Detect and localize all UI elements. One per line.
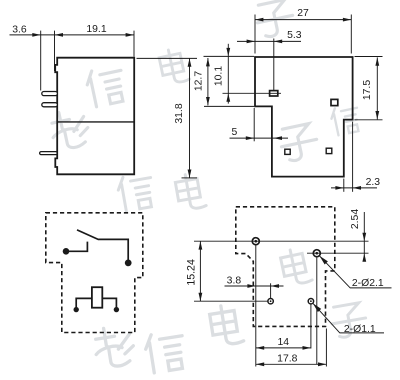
arrow of 3.6 pointing right — [32, 33, 40, 37]
svg-text:10.1: 10.1 — [214, 66, 225, 86]
svg-text:2-Ø2.1: 2-Ø2.1 — [352, 278, 384, 289]
dim 27 dimension line — [255, 19, 351, 21]
leader arrowhead at hole H2 — [318, 254, 328, 264]
svg-text:17.5: 17.5 — [362, 80, 373, 100]
dim 27 right extension — [350, 15, 352, 54]
arrow of 19.1 right — [126, 33, 134, 37]
dim 19.1 dimension line — [55, 34, 134, 36]
pin pad A4 — [326, 148, 332, 153]
dim 5 left extension line — [253, 108, 255, 141]
arrow 27 left — [255, 18, 263, 22]
hole H4 column extension line — [310, 304, 312, 349]
leader line to hole H2 (2-Ø2.1) — [319, 256, 391, 288]
dashed case outline — [46, 213, 143, 333]
arrow 12.7 down — [206, 97, 210, 105]
dim 19.1 right extension line — [133, 31, 135, 57]
leader arrowhead at hole H4 — [311, 302, 321, 312]
dim 3.6 extension line at pin tip — [40, 31, 42, 91]
dim 15.24 dimension line — [199, 241, 201, 301]
svg-text:27: 27 — [297, 8, 309, 19]
hole H1 column extension line — [255, 245, 257, 367]
dim 2.3 dimension line — [331, 187, 377, 189]
svg-text:5: 5 — [232, 127, 238, 138]
arrow 15.24 up — [199, 241, 203, 249]
contact movable blade — [77, 230, 99, 240]
terminal node: contact common — [63, 248, 70, 255]
svg-text:2.54: 2.54 — [350, 209, 361, 229]
arrow 5 left (outside, points right) — [246, 136, 254, 140]
svg-text:3.8: 3.8 — [227, 276, 242, 287]
arrow 10.1 top (outside, points down) — [226, 48, 230, 56]
arrow 3.8 right (outside, points left) — [271, 284, 279, 288]
relay body outline (side view) — [55, 58, 134, 175]
svg-text:19.1: 19.1 — [86, 24, 106, 35]
hole H1 center dot — [255, 240, 258, 243]
pin A1 row extension line — [223, 92, 282, 94]
dim 2.3 right extension — [352, 122, 354, 192]
svg-text:31.8: 31.8 — [174, 103, 185, 123]
coil right wire — [102, 298, 116, 307]
hole H2 column extension line — [316, 257, 318, 365]
dim 14 dimension line — [256, 347, 311, 349]
hole H3 center dot — [270, 300, 272, 302]
dim 17.5 bottom extension — [355, 119, 383, 121]
dim 2.54 dimension line — [363, 212, 365, 259]
dim 31.8 dimension line — [189, 58, 191, 177]
arrow 5 right (outside, points left) — [274, 136, 282, 140]
arrow 2.54 top (outside, points down) — [362, 233, 366, 241]
arrow 14 right — [303, 346, 311, 350]
leader line to hole H4 (2-Ø1.1) — [313, 303, 384, 333]
svg-text:17.8: 17.8 — [277, 354, 297, 365]
arrow of 31.8 up — [188, 58, 192, 66]
svg-text:2-Ø1.1: 2-Ø1.1 — [344, 324, 376, 335]
arrow 17.8 right — [318, 362, 326, 366]
dim 5.3 dimension line — [237, 40, 301, 42]
svg-text:12.7: 12.7 — [193, 71, 204, 91]
dim 2.3 left extension — [343, 179, 345, 192]
pin pad A1 — [270, 91, 278, 96]
svg-text:15.24: 15.24 — [186, 259, 198, 286]
hole H4 center dot — [310, 300, 312, 302]
contact common terminal wire — [66, 242, 87, 252]
arrow 5.3 left (outside, points right) — [247, 40, 255, 44]
dim 17.8 dimension line — [256, 363, 327, 365]
dim 12.7 dimension line — [207, 58, 209, 105]
arrow 12.7 up — [206, 58, 210, 66]
pin P2 (second left) — [42, 103, 58, 107]
arrow of 31.8 down — [188, 170, 192, 178]
arrow 2.3 right (outside, points left) — [353, 186, 361, 190]
svg-text:2.3: 2.3 — [366, 177, 381, 188]
seating plane extension line — [204, 105, 254, 107]
dim 17.8 right extension line — [325, 329, 327, 367]
hole H4 ring — [308, 299, 313, 304]
hole H2 row extension line — [307, 252, 369, 254]
arrow 2.54 bottom (outside, points up) — [362, 253, 366, 261]
hole H3 column extension line (3.8) — [270, 283, 272, 298]
relay profile outline — [255, 57, 353, 177]
dashed footprint outline — [236, 207, 335, 327]
dim 17.5 top extension — [355, 56, 383, 58]
hole H1 ring — [252, 238, 259, 245]
body divider line — [57, 121, 134, 123]
dim 31.8 bottom extension line — [182, 177, 198, 179]
dim 17.5 dimension line — [376, 57, 378, 119]
dim 5 dimension line — [230, 137, 289, 139]
arrow 2.3 left (outside, points right) — [335, 186, 343, 190]
arrow 5.3 right (outside, points left) — [274, 40, 282, 44]
arrow of 19.1 left — [55, 33, 63, 37]
top edge extension to left — [204, 55, 255, 57]
dim 10.1 dimension line — [227, 44, 229, 104]
arrow 3.8 left (outside, points right) — [247, 284, 255, 288]
watermark layer — [48, 0, 368, 374]
arrow 14 left — [256, 346, 264, 350]
arrow 17.8 left — [256, 362, 264, 366]
dim 27 left extension — [254, 15, 256, 54]
terminal node: coil right — [114, 307, 119, 312]
coil left wire — [76, 298, 92, 307]
arrow 17.5 up — [375, 57, 379, 65]
svg-text:5.3: 5.3 — [287, 30, 302, 41]
coil body — [92, 287, 102, 308]
dim 3.8 dimension line — [225, 285, 284, 287]
arrow 10.1 bottom (outside, points up) — [226, 93, 230, 101]
arrow 15.24 down — [199, 293, 203, 301]
svg-text:14: 14 — [278, 337, 290, 348]
pin pad A3 — [285, 149, 290, 154]
contact output wire — [99, 239, 129, 262]
dim 3.6 leader line — [10, 34, 55, 36]
hole H2 ring — [313, 250, 320, 257]
hole H3 ring — [268, 299, 273, 304]
hole H2 center dot — [316, 252, 319, 255]
hole H1 row extension line — [194, 240, 369, 242]
pin pad A2 — [331, 99, 338, 105]
dim 3.6 extension line at body edge — [54, 31, 56, 71]
extension line pin A1 centerline vertical — [273, 39, 275, 91]
terminal node: contact output — [125, 260, 132, 267]
pin P3 (lower left) — [40, 152, 58, 155]
arrow 17.5 down — [375, 111, 379, 119]
pin P1 (upper left) — [42, 92, 58, 96]
hole H3 row extension line — [194, 300, 268, 302]
dim 31.8 top extension line — [137, 57, 198, 59]
svg-text:3.6: 3.6 — [12, 25, 27, 36]
terminal node: coil left — [74, 307, 79, 312]
arrow 27 right — [343, 18, 351, 22]
